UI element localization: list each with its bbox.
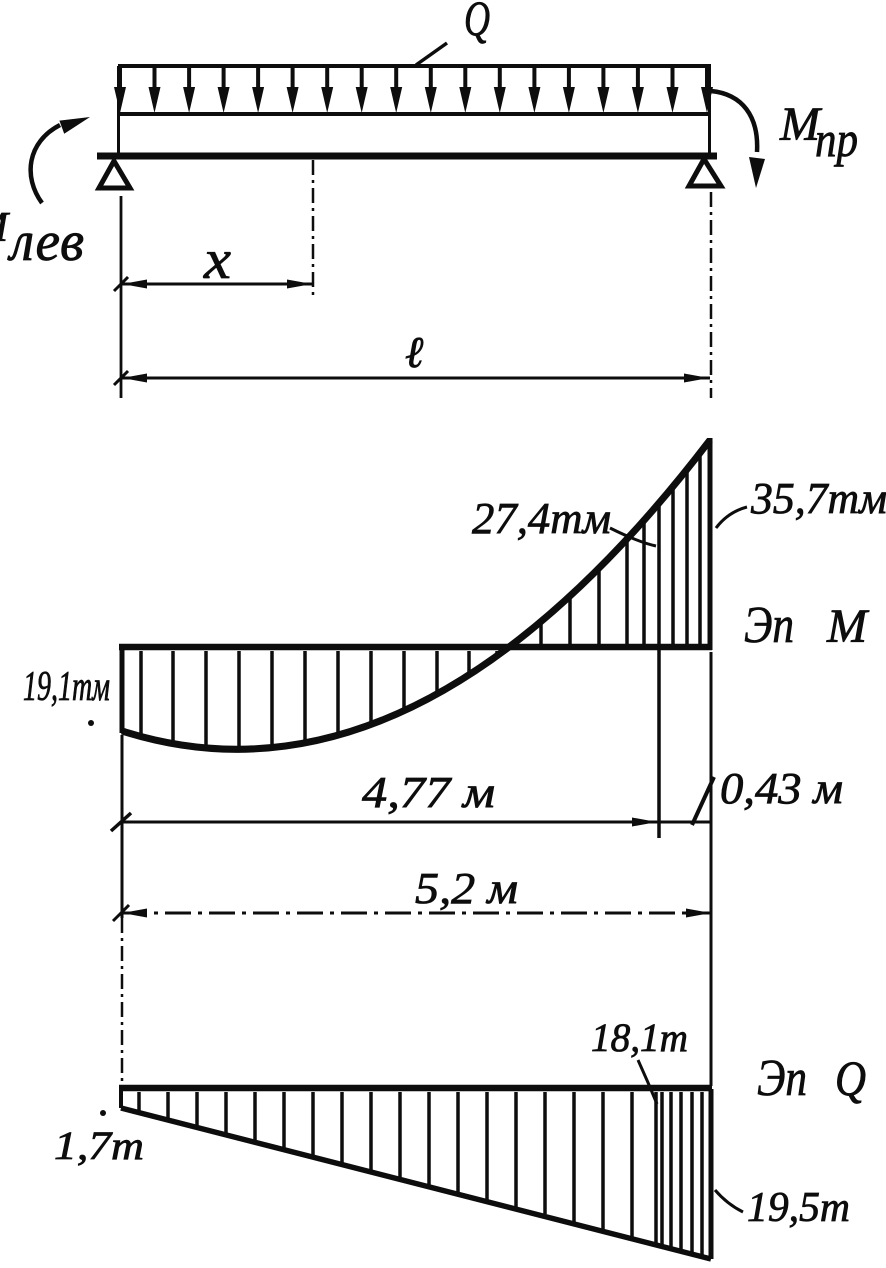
moment curve (parabola) [122, 440, 710, 749]
left support triangle [99, 161, 130, 188]
svg-text:лев: лев [7, 211, 84, 273]
moment diagram left edge (19,1) [120, 647, 125, 733]
centreline under left support (dash-dot) [120, 196, 123, 398]
section line 4,77 marker [657, 504, 661, 838]
dimension line 5,2 (dash-dot) [113, 905, 712, 921]
shear diagram baseline [119, 1085, 712, 1092]
svg-text:0,43 м: 0,43 м [720, 764, 843, 813]
moment diagram baseline [119, 644, 712, 651]
load right edge [708, 66, 711, 154]
svg-text:19,5т: 19,5т [747, 1185, 850, 1231]
shear diagram bottom slant [121, 1108, 711, 1259]
section line x (dash-dot) [312, 160, 315, 300]
svg-text:5,2 м: 5,2 м [415, 864, 518, 913]
svg-text:1,7т: 1,7т [54, 1123, 144, 1168]
stray scan dot under 19,1 label [88, 720, 94, 726]
dimension line 4,77 [111, 813, 712, 831]
shear diagram right edge (19,5) [709, 1089, 714, 1259]
svg-text:Эп: Эп [744, 597, 794, 654]
moment arrow M_pr (curved, right end) [711, 91, 765, 188]
leader 19,5 [715, 1190, 743, 1212]
svg-text:х: х [203, 229, 231, 291]
right vertical reference line [710, 652, 713, 1086]
svg-text:18,1т: 18,1т [591, 1015, 688, 1060]
left vertical reference line [121, 735, 124, 918]
right support triangle [689, 159, 721, 186]
dimension line x [114, 277, 313, 291]
dimension line l [114, 371, 710, 385]
svg-text:4,77 м: 4,77 м [362, 768, 495, 817]
distributed load arrows [114, 68, 713, 113]
stray scan dot left of Q diagram [100, 1110, 106, 1116]
svg-text:М: М [826, 600, 870, 653]
shear diagram left edge (1,7) [119, 1089, 123, 1108]
beam [97, 153, 717, 160]
svg-text:19,1тм: 19,1тм [23, 664, 110, 710]
svg-text:пр: пр [815, 111, 858, 167]
dimension tick 0,43 (slash) [692, 777, 714, 825]
svg-text:35,7тм: 35,7тм [750, 474, 886, 523]
distributed load top line [118, 64, 711, 68]
leader 27,4 [610, 528, 656, 546]
hatching Ep Q [139, 1092, 702, 1255]
leader 18,1 [638, 1060, 657, 1104]
hatching Ep M [141, 455, 700, 747]
moment diagram right edge (35,7) [708, 438, 713, 650]
leader 35,7 [716, 507, 747, 528]
distributed load bottom line [118, 112, 711, 116]
svg-text:Эп: Эп [757, 1050, 807, 1107]
svg-text:Q: Q [464, 0, 490, 46]
centreline under right support (dash-dot) [710, 192, 713, 398]
section marker 4,77 in Q (double line) [654, 1092, 658, 1245]
svg-text:27,4тм: 27,4тм [472, 494, 611, 543]
moment arrow M_lev (curved, left end) [31, 117, 90, 203]
load left edge [117, 66, 120, 154]
svg-text:Q: Q [835, 1050, 866, 1106]
load label Q leader [416, 43, 447, 65]
svg-text:ℓ: ℓ [405, 328, 424, 377]
